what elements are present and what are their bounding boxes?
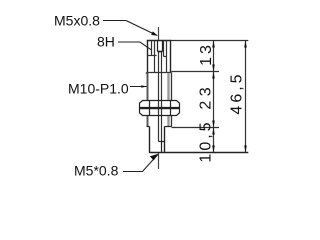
svg-text:23: 23 <box>197 83 214 110</box>
bottom thread pocket <box>159 142 165 154</box>
tapped hole M5 thread lines <box>148 41 167 73</box>
middle body right edge <box>146 73 172 127</box>
arrowheads dimension 23 <box>212 72 215 79</box>
tapped hole center bore top <box>158 41 163 52</box>
svg-text:13: 13 <box>198 42 215 66</box>
extension line top <box>171 40 249 42</box>
leader line M10-P1.0 <box>130 86 147 88</box>
dimension line 13-23-10,5 <box>213 41 215 153</box>
arrowheads dimension 13 <box>212 41 215 48</box>
part top section body <box>147 41 171 73</box>
leader line M5*0.8 <box>123 154 158 171</box>
label M5*0.8 bottom <box>74 163 119 179</box>
lock nut 2 <box>140 109 180 116</box>
arrowheads dimension 10,5 <box>212 128 215 135</box>
svg-text:46,5: 46,5 <box>228 71 245 114</box>
extension line 13/23 <box>172 71 220 73</box>
centerline bottom stub <box>158 153 160 169</box>
arrowhead M10-P1.0 <box>141 85 147 88</box>
extension line 23/10,5 <box>172 127 220 129</box>
leader line 8H <box>118 42 151 50</box>
leader line M5x0.8 <box>103 21 157 36</box>
dimension line 46,5 <box>245 41 247 153</box>
svg-text:10,5: 10,5 <box>198 119 215 162</box>
section A bottom boundary <box>147 72 172 74</box>
lock nut 1 <box>140 101 180 108</box>
svg-text:8H: 8H <box>97 34 115 50</box>
middle body inner gray thread band <box>167 73 169 127</box>
bottom face line <box>150 152 249 154</box>
svg-text:M5*0.8: M5*0.8 <box>74 163 119 179</box>
label M5x0.8 top <box>54 13 100 29</box>
middle body left edge gray <box>147 73 149 127</box>
arrowhead M5*0.8 <box>150 154 159 161</box>
arrowhead M5x0.8 <box>151 31 158 36</box>
bottom step ticks <box>147 126 172 128</box>
svg-text:M5x0.8: M5x0.8 <box>54 13 100 29</box>
bottom boss <box>150 127 165 154</box>
through bore lines <box>159 52 162 142</box>
arrowheads dimension 46,5 <box>244 41 247 48</box>
svg-text:M10-P1.0: M10-P1.0 <box>68 81 129 97</box>
centerline top stub <box>158 27 160 40</box>
label M10-P1.0 <box>68 81 129 97</box>
label 8H <box>97 34 115 50</box>
